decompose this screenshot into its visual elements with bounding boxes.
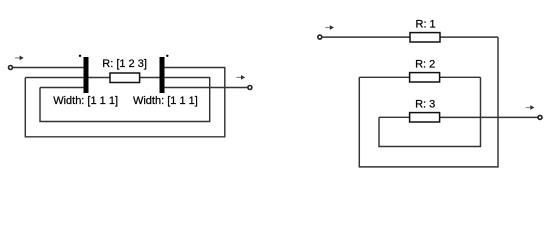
- resistor R1 body: [410, 33, 440, 42]
- wire bar1 to resistor R: [89, 77, 111, 79]
- port P4 terminal: [538, 115, 542, 119]
- wire outer loop to R2: [359, 76, 409, 78]
- wire R1 to outer loop: [440, 36, 498, 38]
- wire outer loop R1-R2: [359, 37, 498, 167]
- wire resistor R to bar2: [140, 77, 160, 79]
- svg-text:Width: [1 1 1]: Width: [1 1 1]: [53, 95, 118, 107]
- wire bar2 to port P2: [165, 87, 248, 89]
- resistor R3 body: [410, 113, 440, 122]
- multiconductor bar W1: [84, 57, 89, 93]
- wire outer return loop: [25, 68, 225, 137]
- wire middle conductor left: [25, 77, 83, 79]
- wire R2 to inner loop: [440, 76, 481, 78]
- resistor R2 body: [410, 73, 440, 82]
- svg-text:R: 3: R: 3: [415, 98, 435, 110]
- wire P3 to resistor R1: [322, 36, 410, 38]
- wire bottom conductor left: [40, 87, 84, 89]
- port P2 terminal: [248, 86, 252, 90]
- svg-text:R: 1: R: 1: [416, 18, 436, 30]
- wire inner loop to R3: [379, 116, 410, 118]
- arrow at port P3: [325, 25, 334, 30]
- arrow at port P4: [526, 105, 535, 110]
- svg-text:R: [1 2 3]: R: [1 2 3]: [102, 58, 147, 70]
- wire R3 to port P4: [440, 116, 538, 118]
- arrow at port P1: [15, 56, 24, 61]
- wire inner loop R2-R3: [379, 77, 481, 146]
- wire inner return loop: [40, 78, 210, 122]
- port P3 terminal: [318, 35, 322, 39]
- port P1 terminal: [9, 66, 13, 70]
- polarity dot of bar W1: [79, 55, 81, 57]
- right circuit: [318, 35, 542, 167]
- svg-text:Width: [1 1 1]: Width: [1 1 1]: [133, 95, 198, 107]
- wire P1 to bar1 top conductor: [13, 67, 84, 69]
- multiconductor bar W2: [160, 57, 165, 93]
- arrow at port P2: [236, 75, 245, 80]
- svg-text:R: 2: R: 2: [415, 58, 435, 70]
- left circuit: [9, 66, 252, 137]
- resistor R body: [110, 73, 140, 83]
- polarity dot of bar W2: [166, 55, 168, 57]
